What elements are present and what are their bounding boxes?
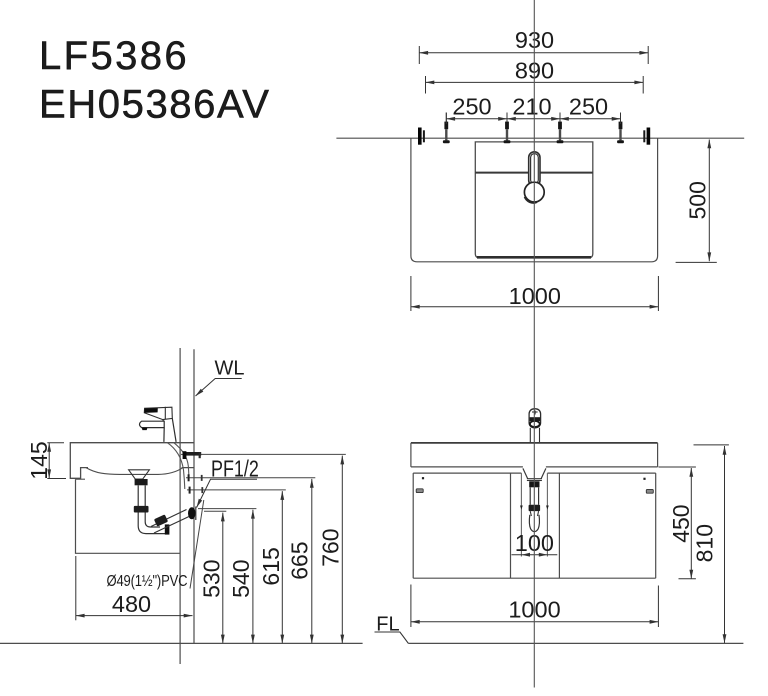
dimension 100 — [512, 530, 558, 557]
svg-text:500: 500 — [684, 181, 710, 219]
countertop outline (plan) — [411, 138, 658, 262]
svg-text:540: 540 — [228, 560, 254, 598]
floor line left segment — [0, 642, 363, 644]
countertop slab (side) — [70, 443, 194, 479]
svg-text:250: 250 — [569, 93, 608, 119]
faucet supply hoses (side) — [167, 442, 185, 489]
basin drain funnel (side) — [129, 470, 150, 479]
stop valve at wall (dark) with 760 extension line — [181, 453, 346, 455]
svg-text:145: 145 — [26, 441, 52, 479]
basin bowl underside (side) — [86, 468, 183, 475]
handle right — [646, 489, 653, 493]
trap tail pipe (side) — [137, 485, 139, 526]
supply stub (615 extension line) — [187, 489, 286, 491]
dimension 890 — [426, 58, 644, 94]
drain secondary arc — [524, 197, 537, 203]
PVC pipe leader — [190, 500, 204, 589]
FL label — [375, 614, 409, 644]
svg-text:250: 250 — [452, 93, 491, 119]
basin outline (plan) — [475, 142, 593, 258]
mounting bolt 1 — [443, 113, 450, 144]
wall line (plan) — [336, 137, 744, 139]
PF1/2 label — [197, 456, 259, 507]
hinge dot right — [643, 478, 645, 480]
faucet (front) — [529, 409, 541, 443]
wall line WL (vertical) — [193, 349, 195, 643]
cabinet (side) — [76, 479, 181, 553]
outlet union nut (dark) — [154, 514, 168, 526]
drain assembly (front) — [523, 468, 546, 531]
rising outlet pipe to wall — [151, 510, 189, 534]
dimension 250 / 210 / 250 — [446, 93, 620, 124]
center line (vertical axis of both right-hand views) — [533, 0, 535, 688]
faucet hole inner capsule — [531, 154, 539, 184]
dimension 450 — [659, 467, 696, 579]
countertop (front) — [411, 443, 658, 467]
trap elbow to outlet — [138, 526, 166, 534]
model number labels — [39, 34, 271, 127]
dimension 1000 (front) — [411, 585, 659, 628]
supply stub (665 extension line) — [186, 477, 315, 479]
faucet hole (plan) outer capsule — [529, 152, 540, 186]
supply hoses (front) — [520, 473, 522, 556]
door line right — [558, 473, 560, 578]
dimension 540 — [228, 510, 254, 644]
dimension 810 — [692, 445, 729, 643]
dimension 665 — [287, 479, 313, 644]
dimension 760 — [318, 456, 344, 644]
door line left — [510, 473, 512, 578]
wall bracket left — [418, 128, 425, 145]
svg-text:Ø49(1½")PVC: Ø49(1½")PVC — [107, 573, 188, 590]
540 extension line — [198, 508, 256, 510]
dimension 145 — [26, 441, 66, 479]
secondary vertical line (behind wall) — [179, 348, 181, 664]
dimension 500 (plan depth) — [676, 140, 717, 263]
svg-text:480: 480 — [112, 591, 151, 617]
cabinet (front) — [413, 473, 656, 578]
dimension 530 — [199, 513, 225, 644]
spout — [140, 421, 165, 427]
wall drain flange (dark) — [188, 507, 196, 519]
svg-text:615: 615 — [258, 547, 284, 585]
svg-text:EH05386AV: EH05386AV — [39, 83, 271, 127]
WL label — [196, 358, 245, 397]
faucet (side view) — [140, 407, 177, 442]
hinge dot left — [422, 477, 424, 479]
svg-text:PF1/2: PF1/2 — [211, 456, 259, 482]
svg-text:LF5386: LF5386 — [39, 34, 189, 78]
mounting bolt 2 — [504, 113, 511, 144]
svg-text:530: 530 — [199, 560, 225, 598]
drain hole circle (plan) — [524, 182, 544, 202]
outlet end cap (dark) — [165, 524, 170, 534]
svg-text:760: 760 — [318, 528, 344, 566]
svg-text:WL: WL — [215, 358, 245, 380]
dimension 1000 (plan) — [411, 276, 659, 311]
trap nut 1 (dark) — [134, 506, 149, 513]
handle lever — [144, 407, 172, 419]
wall bracket right — [643, 128, 650, 145]
mounting bolt 4 — [617, 113, 624, 144]
mounting bolt 3 — [557, 113, 564, 144]
basin back-ledge edge (thick) — [475, 172, 593, 174]
body column — [163, 418, 176, 442]
svg-text:665: 665 — [287, 541, 313, 579]
dimension 930 — [419, 27, 648, 64]
handle left — [416, 489, 423, 493]
svg-text:210: 210 — [512, 93, 551, 119]
dimension 615 — [258, 491, 284, 643]
530 extension line — [204, 510, 226, 512]
drain flange (side, dark) — [135, 479, 148, 485]
svg-text:450: 450 — [668, 504, 694, 542]
basin bottom edge (thick) — [477, 256, 591, 259]
floor line right segment — [408, 642, 743, 644]
dimension 480 — [76, 556, 193, 620]
svg-text:810: 810 — [692, 524, 718, 562]
